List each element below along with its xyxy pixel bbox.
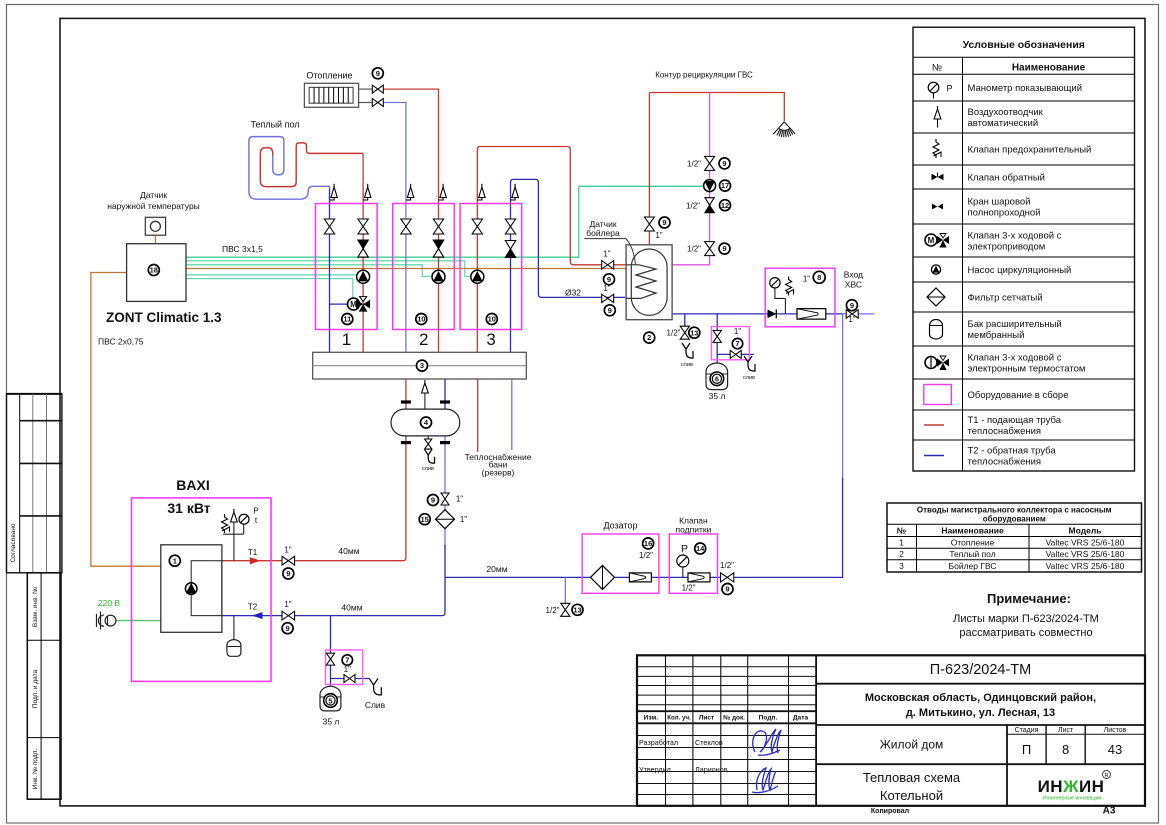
svg-text:Клапан 3-х ходовой с: Клапан 3-х ходовой с <box>968 230 1062 241</box>
svg-text:Р: Р <box>946 84 952 94</box>
pressure gauge ХВС <box>770 278 780 288</box>
svg-text:Valtec VRS 25/6-180: Valtec VRS 25/6-180 <box>1046 561 1125 571</box>
controller ZONT Climatic 1.3 <box>127 244 186 302</box>
filter ХВС (conebox) <box>797 309 826 320</box>
expansion tank 5 <box>320 686 341 711</box>
svg-text:35 л: 35 л <box>323 717 340 727</box>
valve recirc bottom 1/2" <box>705 242 715 256</box>
equipment Клапан подпитки (magenta box) <box>669 534 717 593</box>
svg-text:13: 13 <box>573 605 581 614</box>
svg-text:Дозатор: Дозатор <box>603 521 637 531</box>
svg-text:рассматривать совместно: рассматривать совместно <box>959 627 1092 639</box>
svg-text:Подп. и дата: Подп. и дата <box>32 669 39 708</box>
pipe hydrosep drain stub <box>427 436 429 450</box>
svg-text:Изм.: Изм. <box>644 715 659 722</box>
svg-text:Ø32: Ø32 <box>565 288 581 298</box>
legend sym T1 <box>924 424 944 426</box>
svg-text:Взам. инв. №: Взам. инв. № <box>32 587 39 627</box>
svg-text:P: P <box>253 507 258 516</box>
svg-text:1/2": 1/2" <box>687 245 701 254</box>
wire ПВС bundle from ZONT <box>186 186 703 257</box>
BAXI expansion tank <box>233 616 235 640</box>
svg-text:Условные обозначения: Условные обозначения <box>963 39 1085 51</box>
svg-text:9: 9 <box>850 301 854 310</box>
svg-text:Клапан обратный: Клапан обратный <box>968 172 1046 183</box>
svg-text:Подп.: Подп. <box>759 715 778 722</box>
svg-text:Бойлер ГВС: Бойлер ГВС <box>949 561 997 571</box>
svg-text:Ларионов: Ларионов <box>695 765 728 774</box>
legend sym T2 <box>924 455 944 457</box>
node 9 recirc bottom <box>719 243 730 254</box>
equipment Вход ХВС group (magenta box) <box>765 268 835 327</box>
svg-text:(резерв): (резерв) <box>482 468 515 478</box>
svg-text:1/2": 1/2" <box>686 202 700 211</box>
svg-text:T1: T1 <box>248 548 258 557</box>
svg-text:Контур рециркуляции ГВС: Контур рециркуляции ГВС <box>655 71 753 80</box>
svg-text:Т1 - подающая труба: Т1 - подающая труба <box>968 415 1062 426</box>
svg-text:9: 9 <box>431 496 435 505</box>
svg-text:Фильтр сетчатый: Фильтр сетчатый <box>968 292 1043 303</box>
svg-text:15: 15 <box>421 515 429 524</box>
pipe T2 return radiator (light blue) <box>383 103 406 353</box>
svg-text:9: 9 <box>662 218 666 227</box>
svg-text:А3: А3 <box>1103 806 1116 817</box>
pipe группы 1 risers <box>329 188 331 352</box>
svg-text:Московская область, Одинцовски: Московская область, Одинцовский район, <box>865 692 1096 704</box>
svg-text:Лист: Лист <box>699 715 715 722</box>
svg-text:электроприводом: электроприводом <box>968 241 1046 252</box>
svg-text:Инв. № подл.: Инв. № подл. <box>32 749 39 790</box>
drain Слив tank5 <box>369 678 378 685</box>
svg-text:2: 2 <box>419 330 428 349</box>
svg-text:полнопроходной: полнопроходной <box>968 207 1041 218</box>
svg-text:9: 9 <box>286 569 290 578</box>
svg-text:9: 9 <box>725 585 729 594</box>
wire to pump group1 <box>186 274 357 276</box>
svg-text:подпитки: подпитки <box>675 525 711 535</box>
drain слив boiler <box>682 343 690 349</box>
svg-text:слив: слив <box>422 466 434 472</box>
svg-text:Разработал: Разработал <box>639 738 678 747</box>
legend sym насос <box>931 265 940 274</box>
legend sym обратный клапан <box>932 174 938 180</box>
valve group 2 left <box>401 219 411 234</box>
pipe ХВС to boiler bottom (blue) <box>672 313 843 315</box>
boiler бойлер ГВС (2) <box>626 245 672 320</box>
svg-text:№ док.: № док. <box>723 715 745 722</box>
3-way valve M group 1 <box>330 303 348 305</box>
svg-text:наружной температуры: наружной температуры <box>107 201 200 211</box>
check valve ХВС <box>768 310 777 319</box>
svg-text:Воздухоотводчик: Воздухоотводчик <box>968 107 1044 118</box>
svg-text:1": 1" <box>603 284 610 293</box>
svg-text:17: 17 <box>721 181 729 190</box>
svg-text:1": 1" <box>848 315 855 324</box>
reducer дозатор <box>629 573 651 582</box>
valve tank5 <box>326 653 334 665</box>
air vent group 2 left <box>406 198 411 201</box>
equipment group 3 (magenta box) <box>460 204 522 330</box>
valve group 3 left <box>472 219 482 234</box>
svg-text:Наименование: Наименование <box>941 526 1004 536</box>
check valve group 2 <box>433 240 443 249</box>
equipment group 2 (magenta box) <box>393 204 455 330</box>
svg-text:Теплый пол: Теплый пол <box>949 549 995 559</box>
shower душ <box>773 122 795 137</box>
svg-text:9: 9 <box>722 244 726 253</box>
svg-text:1": 1" <box>603 250 610 259</box>
air vent group 3 right <box>511 198 516 201</box>
svg-text:10: 10 <box>417 315 425 324</box>
check valve recirc (12) <box>705 198 714 206</box>
svg-text:Р: Р <box>681 543 688 555</box>
valve T2 1" (9) <box>282 611 295 620</box>
air vent group 1 right <box>363 198 368 201</box>
svg-text:Кран шаровой: Кран шаровой <box>968 196 1031 207</box>
svg-text:Лист: Лист <box>1058 727 1074 734</box>
gauge (7) <box>733 339 743 349</box>
svg-text:6: 6 <box>715 375 719 384</box>
svg-text:1: 1 <box>173 556 177 565</box>
pipe T1 supply radiator (red) <box>383 89 438 352</box>
drain valve hydrosep <box>425 439 432 449</box>
valve group 1 left <box>324 219 334 234</box>
svg-text:Бак расширительный: Бак расширительный <box>968 319 1062 330</box>
pipe recirculation return (magenta) <box>672 93 710 265</box>
equipment Дозатор (magenta box) <box>582 534 659 593</box>
air vent group 2 right <box>439 198 444 201</box>
svg-text:электронным термостатом: электронным термостатом <box>968 363 1086 374</box>
svg-text:оборудованием: оборудованием <box>983 515 1046 524</box>
svg-text:9: 9 <box>607 275 611 284</box>
svg-text:R: R <box>1105 773 1109 779</box>
svg-text:9: 9 <box>286 624 290 633</box>
valve radiator supply <box>372 85 383 93</box>
reducer подпитки <box>688 573 710 582</box>
node 9 recirc top <box>719 158 730 169</box>
svg-text:9: 9 <box>722 159 726 168</box>
svg-text:Котельной: Котельной <box>880 788 943 803</box>
svg-text:1: 1 <box>342 330 351 349</box>
svg-text:5: 5 <box>328 696 332 705</box>
svg-text:7: 7 <box>345 656 349 665</box>
svg-text:Отводы магистрального коллекто: Отводы магистрального коллектора с насос… <box>917 506 1112 515</box>
svg-text:Листов: Листов <box>1104 727 1127 734</box>
valve boiler top 1" <box>644 217 654 231</box>
svg-text:Согласовано: Согласовано <box>10 523 17 562</box>
check valve group 1 <box>358 240 368 249</box>
svg-text:1": 1" <box>284 546 291 555</box>
pipe расширительный бак 5 branch <box>330 616 332 688</box>
svg-text:Тепловая схема: Тепловая схема <box>863 770 961 785</box>
node 9 ХВС <box>846 300 857 311</box>
filter сетчатый (15) <box>436 510 455 529</box>
boiler coil <box>626 265 656 299</box>
svg-text:1": 1" <box>655 231 662 240</box>
title block <box>637 655 1145 806</box>
svg-text:Valtec VRS 25/6-180: Valtec VRS 25/6-180 <box>1046 537 1125 547</box>
svg-text:12: 12 <box>721 201 729 210</box>
svg-text:ХВС: ХВС <box>845 280 862 290</box>
valve recirc top 1/2" <box>705 156 715 170</box>
svg-text:1/2": 1/2" <box>682 584 696 593</box>
valve group 1 right <box>358 219 368 234</box>
svg-text:ИНЖИН: ИНЖИН <box>1038 777 1105 796</box>
collector коллектор (3) <box>313 352 527 379</box>
hydro separator (4) <box>401 400 411 403</box>
node 9 boiler supply <box>604 274 615 285</box>
svg-text:Оборудование в сборе: Оборудование в сборе <box>968 390 1069 401</box>
expansion tank 6 <box>706 363 728 390</box>
valve T1 1" (9) <box>282 556 295 565</box>
svg-text:Насос циркуляционный: Насос циркуляционный <box>968 265 1072 276</box>
svg-text:теплоснабжения: теплоснабжения <box>968 456 1042 467</box>
svg-text:1/2": 1/2" <box>667 329 681 338</box>
legend sym 3-х ходовой с электроприводом <box>925 234 937 246</box>
svg-text:20мм: 20мм <box>486 564 507 574</box>
legend sym манометр <box>928 82 939 93</box>
valve group 2 right <box>433 219 443 234</box>
node 17 <box>720 180 731 191</box>
svg-text:1/2": 1/2" <box>639 551 653 560</box>
svg-text:Жилой дом: Жилой дом <box>880 738 944 752</box>
left stamp lower <box>27 573 61 799</box>
svg-text:Клапан 3-х ходовой с: Клапан 3-х ходовой с <box>968 352 1062 363</box>
svg-text:9: 9 <box>376 69 380 78</box>
node 10 group 3 <box>486 314 497 325</box>
legend table Условные обозначения <box>913 27 1135 471</box>
pipe бани отводы <box>477 379 479 452</box>
svg-text:Клапан предохранительный: Клапан предохранительный <box>968 144 1092 155</box>
svg-text:Дата: Дата <box>793 715 809 722</box>
svg-text:Стеклов: Стеклов <box>695 738 723 747</box>
equipment BAXI (magenta box) <box>132 498 272 682</box>
svg-text:слив: слив <box>743 375 755 381</box>
svg-text:слив: слив <box>681 362 693 368</box>
svg-text:1": 1" <box>456 495 463 504</box>
filter дозатор <box>591 565 615 589</box>
svg-text:Т2 - обратная труба: Т2 - обратная труба <box>968 445 1057 456</box>
svg-text:Отопление: Отопление <box>951 537 995 547</box>
svg-text:T2: T2 <box>248 603 258 612</box>
check valve group 3 <box>505 241 515 250</box>
pipe group3 return from boiler (blue) <box>511 179 627 352</box>
svg-text:Модель: Модель <box>1069 526 1102 536</box>
svg-text:3: 3 <box>486 330 495 349</box>
equipment tank 6 group (magenta box) <box>711 327 749 360</box>
svg-text:8: 8 <box>1062 742 1069 757</box>
svg-text:18: 18 <box>150 266 158 275</box>
svg-text:1": 1" <box>344 665 351 674</box>
pump BAXI <box>185 583 197 595</box>
svg-text:3: 3 <box>899 561 904 571</box>
pump group 1 <box>357 270 370 283</box>
svg-text:П-623/2024-ТМ: П-623/2024-ТМ <box>930 662 1032 678</box>
air vent group 3 left <box>477 198 482 201</box>
svg-text:Наименование: Наименование <box>1012 63 1086 74</box>
node 12 <box>720 200 731 211</box>
node 9 boiler return <box>604 305 615 316</box>
valve boiler supply 1" <box>602 261 614 269</box>
svg-text:13: 13 <box>690 328 698 337</box>
svg-text:Теплый пол: Теплый пол <box>250 120 299 130</box>
pump recirc (17) <box>704 180 716 192</box>
signatures <box>753 729 781 755</box>
svg-text:Датчик: Датчик <box>140 190 167 200</box>
svg-text:3: 3 <box>420 361 424 370</box>
svg-text:Valtec VRS 25/6-180: Valtec VRS 25/6-180 <box>1046 549 1125 559</box>
valve 1" (9) on return riser <box>441 493 449 505</box>
legend sym фильтр <box>927 288 945 306</box>
svg-text:Манометр показывающий: Манометр показывающий <box>968 83 1083 94</box>
air vent hydrosep <box>424 393 426 409</box>
node 11 group 1 <box>342 314 353 325</box>
svg-text:Листы марки П-623/2024-ТМ: Листы марки П-623/2024-ТМ <box>953 613 1099 625</box>
equipment tank 5 group (magenta box) <box>326 650 363 685</box>
svg-text:ПВС 2х0,75: ПВС 2х0,75 <box>98 337 144 347</box>
svg-text:16: 16 <box>644 539 652 548</box>
svg-text:35 л: 35 л <box>709 391 726 401</box>
svg-text:1/2": 1/2" <box>720 561 734 570</box>
svg-text:Примечание:: Примечание: <box>987 591 1071 606</box>
pipe ГВС recirculation (red top) <box>648 93 650 245</box>
pump group 3 <box>471 270 484 283</box>
valve boiler return 1" <box>602 294 614 302</box>
svg-text:д. Митькино, ул. Лесная, 13: д. Митькино, ул. Лесная, 13 <box>906 707 1055 719</box>
svg-text:автоматический: автоматический <box>968 118 1039 129</box>
svg-text:11: 11 <box>343 315 351 324</box>
svg-text:теплоснабжения: теплоснабжения <box>968 426 1042 437</box>
valve tank6 <box>713 330 721 342</box>
svg-text:Стадия: Стадия <box>1015 727 1039 734</box>
valve подпитка 1/2" (9) <box>721 573 734 582</box>
svg-text:1": 1" <box>460 515 467 524</box>
svg-text:10: 10 <box>488 315 496 324</box>
wire датчик бойлера (brown) <box>186 266 636 269</box>
svg-text:Инженерные инновации: Инженерные инновации <box>1043 796 1101 802</box>
node 10 group 2 <box>416 314 427 325</box>
valve drain 1/2" (13) <box>680 326 689 339</box>
safety valve ХВС <box>786 277 792 296</box>
valve tank6 horizontal <box>730 350 741 358</box>
svg-text:2: 2 <box>899 549 904 559</box>
svg-text:9: 9 <box>608 306 612 315</box>
node 8 <box>813 271 825 283</box>
legend sym бак расширительный <box>930 320 943 340</box>
pipe подпитка (blue) <box>842 314 844 480</box>
svg-text:П: П <box>1022 742 1031 757</box>
svg-text:Отопление: Отопление <box>306 71 352 81</box>
svg-text:мембранный: мембранный <box>968 330 1025 341</box>
BAXI inner loop <box>191 561 222 616</box>
legend sym воздухоотводчик <box>934 109 941 119</box>
BAXI instruments <box>233 522 235 561</box>
svg-text:BAXI: BAXI <box>176 477 209 493</box>
svg-text:1": 1" <box>284 600 291 609</box>
pipe T2 BAXI <box>222 613 445 616</box>
pump group 2 <box>432 270 445 283</box>
svg-text:ZONT Climatic 1.3: ZONT Climatic 1.3 <box>106 310 222 325</box>
valve radiator return <box>372 99 383 107</box>
table Отводы магистрального коллектора <box>887 503 1142 572</box>
equipment group 1 (magenta box) <box>316 204 378 330</box>
svg-text:2: 2 <box>647 333 651 342</box>
svg-text:ПВС 3х1,5: ПВС 3х1,5 <box>222 244 263 254</box>
BAXI boiler body <box>161 545 222 633</box>
svg-text:Кол. уч.: Кол. уч. <box>667 715 691 722</box>
svg-text:M: M <box>928 236 935 245</box>
valve group 3 right <box>505 219 515 234</box>
svg-text:1/2": 1/2" <box>687 160 701 169</box>
svg-text:8: 8 <box>817 273 821 282</box>
legend sym оборудование в сборе <box>924 385 952 405</box>
svg-text:1": 1" <box>803 275 810 284</box>
svg-text:Копировал: Копировал <box>871 808 909 815</box>
svg-text:40мм: 40мм <box>341 603 362 613</box>
wire to 3-way valve M group1 <box>186 279 353 298</box>
svg-text:Утвердил: Утвердил <box>639 765 671 774</box>
air vent group 1 left <box>330 198 335 201</box>
valve ХВС 1" <box>846 310 858 318</box>
pipe тёплый пол coil blue <box>249 137 330 200</box>
svg-text:№: № <box>897 526 907 536</box>
pipe hydrosep to T1/T2 <box>222 436 406 561</box>
wire ПВС 2х0,75 to BAXI <box>91 273 161 567</box>
svg-text:1": 1" <box>734 327 741 336</box>
svg-text:31 кВт: 31 кВт <box>167 500 210 516</box>
svg-text:220 В: 220 В <box>98 598 121 608</box>
legend sym кран шаровой <box>932 204 938 210</box>
svg-text:43: 43 <box>1108 742 1122 757</box>
wire 220В <box>116 620 161 622</box>
drain слив tank6 <box>744 356 752 362</box>
node 9 boiler top <box>659 217 670 228</box>
left stamp upper (Согласовано) <box>7 394 62 573</box>
node 9 radiator valves <box>372 68 383 79</box>
valve drain (13) on подпитка <box>561 603 570 616</box>
svg-text:Слив: Слив <box>365 700 386 710</box>
svg-text:бойлера: бойлера <box>586 228 620 238</box>
valve tank5 horizontal <box>344 675 355 683</box>
legend sym 3-х ходовой с термостатом <box>925 357 937 369</box>
pipe group3 supply to boiler (red) <box>477 147 626 353</box>
node 13 <box>689 327 700 338</box>
svg-text:1: 1 <box>899 537 904 547</box>
legend sym предохранительный клапан <box>933 139 939 158</box>
svg-text:1/2": 1/2" <box>546 606 560 615</box>
svg-text:7: 7 <box>735 339 739 348</box>
pipe collector to hydrosep (red/blue) <box>405 379 407 409</box>
svg-text:Вход: Вход <box>844 270 863 280</box>
svg-text:40мм: 40мм <box>338 546 359 556</box>
svg-text:14: 14 <box>696 544 705 553</box>
svg-text:№: № <box>932 63 942 74</box>
pipe тёплый пол coil red <box>260 143 363 187</box>
